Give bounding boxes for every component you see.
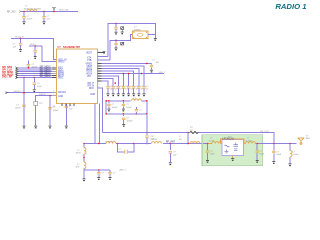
svg-text:C?: C? [37, 83, 41, 85]
svg-text:1n: 1n [146, 89, 149, 91]
svg-text:C?: C? [152, 59, 156, 61]
svg-text:L?: L? [77, 164, 80, 166]
svg-text:1pF: 1pF [173, 155, 177, 157]
svg-text:L?: L? [293, 151, 296, 153]
svg-text:VDD?_RF: VDD?_RF [59, 10, 69, 12]
svg-text:DIO1: DIO1 [58, 77, 64, 79]
svg-text:GND: GND [58, 96, 63, 98]
svg-text:56pF: 56pF [210, 154, 215, 156]
svg-text:SWCLK: SWCLK [58, 92, 67, 94]
svg-text:RFO: RFO [89, 88, 94, 90]
svg-text:1n: 1n [115, 89, 118, 91]
svg-text:ANT: ANT [306, 137, 311, 140]
svg-text:100nF: 100nF [53, 110, 60, 112]
svg-text:1n: 1n [110, 89, 113, 91]
svg-text:Y?: Y? [134, 27, 137, 29]
svg-text:VDD?_IO: VDD?_IO [15, 36, 24, 38]
svg-text:1n: 1n [125, 89, 128, 91]
svg-text:L? 15nH: L? 15nH [105, 141, 113, 143]
svg-text:C?: C? [27, 16, 31, 18]
svg-text:1n: 1n [120, 89, 123, 91]
svg-text:J?: J? [306, 136, 309, 138]
svg-text:0R: 0R [190, 130, 193, 132]
svg-text:SWCLK_?: SWCLK_? [14, 91, 25, 93]
svg-text:C?: C? [102, 173, 106, 175]
svg-text:RADIO 1: RADIO 1 [275, 2, 306, 11]
svg-text:C?: C? [113, 173, 117, 175]
svg-text:VDD?: VDD? [86, 52, 93, 54]
svg-text:56pF: 56pF [276, 154, 281, 156]
svg-text:SPI_MOSI: SPI_MOSI [40, 76, 51, 78]
svg-text:RF_3V3: RF_3V3 [7, 12, 16, 14]
svg-text:L?: L? [25, 6, 28, 8]
svg-text:100nF: 100nF [126, 107, 133, 109]
svg-text:1uF: 1uF [47, 19, 51, 21]
svg-text:100nF: 100nF [15, 107, 22, 109]
svg-text:L?: L? [152, 136, 155, 138]
svg-text:L?: L? [77, 150, 80, 152]
svg-text:1uF: 1uF [13, 46, 17, 48]
svg-text:1n: 1n [141, 89, 144, 91]
svg-text:100nF: 100nF [32, 67, 39, 69]
svg-text:100nF: 100nF [27, 19, 34, 21]
svg-text:C?: C? [127, 118, 131, 120]
svg-text:LFCN-121+: LFCN-121+ [223, 138, 236, 140]
svg-text:C?: C? [276, 151, 280, 153]
svg-text:100nF: 100nF [112, 107, 119, 109]
svg-text:56pF: 56pF [260, 154, 265, 156]
svg-text:2.2nH: 2.2nH [293, 154, 299, 156]
svg-text:0R: 0R [179, 139, 182, 141]
svg-text:U?: U? [58, 46, 62, 49]
svg-text:9: 9 [53, 76, 54, 78]
svg-text:L?: L? [179, 136, 182, 138]
svg-text:4.7nH: 4.7nH [246, 140, 252, 142]
svg-text:18nH: 18nH [76, 153, 81, 155]
svg-text:XTB: XTB [87, 60, 92, 62]
svg-text:3nH: 3nH [76, 167, 80, 169]
svg-text:VREG: VREG [58, 61, 65, 63]
svg-text:ANT_?: ANT_? [120, 169, 127, 172]
svg-text:C?: C? [69, 106, 73, 108]
svg-text:C?: C? [139, 110, 143, 112]
svg-text:C?: C? [126, 104, 130, 106]
svg-text:VIO: VIO [87, 76, 91, 78]
svg-text:100pF: 100pF [127, 120, 134, 122]
svg-text:RF_OUT: RF_OUT [261, 131, 270, 133]
svg-text:GND: GND [90, 94, 95, 96]
svg-text:9: 9 [53, 91, 54, 93]
svg-text:1n: 1n [130, 89, 133, 91]
svg-text:TP?: TP? [39, 103, 44, 105]
svg-text:C?: C? [119, 149, 123, 151]
svg-text:SX1262IMLTRT: SX1262IMLTRT [63, 46, 81, 49]
svg-text:C?: C? [16, 105, 20, 107]
svg-text:1uF: 1uF [156, 62, 160, 64]
svg-text:DIO1_RF: DIO1_RF [2, 76, 13, 79]
svg-text:R?: R? [190, 127, 194, 129]
svg-text:C?: C? [112, 104, 116, 106]
svg-text:1n: 1n [136, 89, 139, 91]
svg-text:C?: C? [173, 152, 177, 154]
svg-text:4.7nH: 4.7nH [209, 140, 215, 142]
svg-text:9: 9 [53, 94, 54, 96]
svg-text:1uF: 1uF [69, 109, 73, 111]
svg-text:15nH: 15nH [152, 139, 157, 141]
svg-text:SWDIO_?: SWDIO_? [39, 94, 49, 96]
svg-text:C?: C? [47, 16, 51, 18]
svg-text:9: 9 [53, 60, 54, 62]
svg-text:C?: C? [13, 44, 17, 46]
svg-text:47pF: 47pF [37, 86, 42, 88]
